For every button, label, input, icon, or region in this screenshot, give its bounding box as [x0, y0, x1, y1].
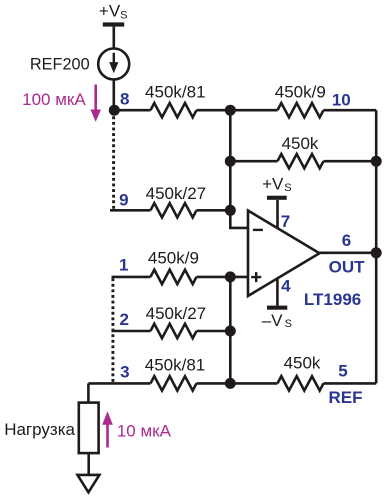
- op-amp U1 LT1996 triangle: [248, 211, 320, 297]
- node dot feedback row right: [371, 156, 382, 167]
- wire feedback left lead: [230, 160, 277, 163]
- wire row3 left lead (from load corner): [88, 382, 150, 385]
- resistor 450k/9 (pin 10): [278, 103, 324, 117]
- wire load to ground: [87, 453, 90, 476]
- right bus wire (vertical): [375, 110, 378, 383]
- svg-text:2: 2: [119, 310, 128, 329]
- resistor 450k/27 (pin 2): [151, 324, 197, 338]
- svg-text:1: 1: [119, 256, 128, 275]
- svg-text:3: 3: [120, 362, 129, 381]
- node dot row1: [225, 271, 236, 282]
- wire row9 left lead: [110, 209, 151, 212]
- svg-text:6: 6: [342, 231, 351, 250]
- wire row1 right lead into + input: [197, 276, 249, 279]
- svg-text:+V: +V: [99, 1, 121, 20]
- svg-text:450k/9: 450k/9: [148, 249, 199, 268]
- power +VS top supply symbol: [103, 22, 124, 49]
- wire row8 right lead: [197, 109, 231, 112]
- svg-text:450k/81: 450k/81: [145, 355, 206, 374]
- wire ref row right lead: [324, 382, 377, 385]
- svg-text:Нагрузка: Нагрузка: [4, 420, 75, 439]
- wire row3 right lead: [197, 382, 231, 385]
- svg-text:450k: 450k: [282, 134, 319, 153]
- power -VS bar pin 4: [267, 279, 287, 310]
- wire row10 right lead to right bus corner: [324, 109, 377, 112]
- svg-text:5: 5: [338, 361, 347, 380]
- current arrow 100 uA (magenta, down): [90, 85, 101, 122]
- svg-text:450k: 450k: [284, 354, 321, 373]
- load resistor rectangle: [79, 403, 99, 454]
- mid bus wire segment B: [229, 277, 232, 384]
- wire row10 left lead: [230, 109, 277, 112]
- label +VS top: [99, 1, 128, 21]
- node dot row9: [225, 205, 236, 216]
- svg-text:S: S: [285, 318, 292, 330]
- wire feedback right lead: [324, 160, 377, 163]
- svg-text:4: 4: [281, 277, 291, 296]
- current source U REF200 circle with down arrow: [98, 49, 129, 80]
- wire row2 left lead: [112, 330, 151, 333]
- label +VS pin7: [262, 175, 292, 195]
- dotted wire node8 to row9: [112, 116, 115, 209]
- wire current source to node 8: [113, 79, 116, 110]
- svg-text:450k/81: 450k/81: [145, 83, 206, 102]
- wire ref row left lead: [230, 382, 277, 385]
- wire row8 left lead: [114, 109, 150, 112]
- svg-text:10 мкА: 10 мкА: [117, 422, 172, 441]
- minus sign inverting input: [253, 229, 263, 231]
- svg-text:S: S: [284, 182, 291, 194]
- svg-text:100 мкА: 100 мкА: [22, 90, 86, 109]
- svg-text:7: 7: [281, 212, 290, 231]
- resistor 450k/9 (pin 1): [151, 270, 197, 284]
- svg-text:9: 9: [119, 191, 128, 210]
- node dot output: [371, 247, 382, 258]
- ground symbol: [78, 475, 100, 492]
- svg-text:S: S: [120, 9, 127, 21]
- svg-text:450k/27: 450k/27: [146, 184, 207, 203]
- plus sign non-inverting input: [251, 272, 261, 282]
- svg-text:8: 8: [120, 89, 129, 108]
- mid bus wire segment A with corner into inverting input: [230, 110, 248, 228]
- resistor 450k/81 (pin 8): [151, 103, 197, 117]
- wire corner down to load: [87, 383, 90, 402]
- resistor 450k/27 (pin 9): [151, 203, 197, 217]
- svg-text:450k/9: 450k/9: [275, 83, 326, 102]
- node dot row3: [225, 378, 236, 389]
- svg-text:450k/27: 450k/27: [146, 304, 207, 323]
- svg-text:10: 10: [332, 90, 351, 109]
- svg-text:LT1996: LT1996: [304, 290, 361, 309]
- wire row9 right lead: [197, 209, 231, 212]
- power +VS bar pin 7: [267, 196, 287, 228]
- resistor 450k feedback: [278, 154, 324, 168]
- svg-text:REF200: REF200: [30, 56, 90, 74]
- wire row1 left lead: [112, 276, 151, 279]
- wire output pin 6: [320, 252, 377, 255]
- wire row2 right lead: [197, 330, 231, 333]
- resistor 450k REF (pin 5): [278, 376, 324, 390]
- svg-text:REF: REF: [329, 388, 363, 407]
- current arrow 10 uA (magenta, up): [102, 411, 113, 447]
- svg-text:OUT: OUT: [329, 258, 366, 277]
- resistor 450k/81 (pin 3): [151, 376, 197, 390]
- svg-text:+V: +V: [262, 175, 284, 194]
- node dot row2: [225, 326, 236, 337]
- node dot mid bus row8: [225, 105, 236, 116]
- svg-text:–V: –V: [262, 311, 283, 330]
- node junction dot pin 8: [109, 105, 120, 116]
- label -VS pin4: [262, 311, 292, 330]
- node dot feedback row left: [225, 156, 236, 167]
- dotted wire pins 1-2-3 bus: [111, 278, 114, 383]
